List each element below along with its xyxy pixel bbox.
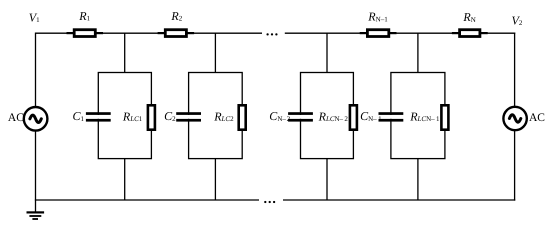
svg-text:C2: C2 [164, 109, 176, 123]
capacitor CN-1 [379, 112, 404, 121]
svg-text:AC: AC [8, 112, 24, 124]
svg-text:RLC1: RLC1 [122, 109, 143, 123]
wire right vertical from V2 node down to bottom rail [514, 33, 516, 201]
wire top rail right segment [285, 32, 515, 34]
capacitor CN-2 [288, 112, 313, 121]
svg-text:V2: V2 [512, 14, 523, 28]
resistor R2 [158, 30, 195, 37]
svg-text:C1: C1 [73, 109, 85, 123]
wire branch 2 top feed [214, 33, 216, 73]
ground [27, 211, 45, 220]
AC source left [24, 107, 48, 131]
node ellipsis top rail [266, 33, 277, 35]
wire branch 4 loop [391, 73, 445, 159]
wire top rail left segment [36, 32, 263, 34]
wire bottom rail left segment [35, 199, 259, 201]
wire branch 3 top feed [326, 33, 328, 73]
node ellipsis bottom rail [264, 201, 275, 203]
svg-text:RN: RN [462, 10, 475, 24]
resistor RLCN-1 [441, 105, 448, 129]
wire branch 1 bottom feed [124, 158, 126, 200]
AC source right [503, 107, 526, 130]
svg-text:V1: V1 [29, 10, 40, 24]
svg-text:CN–1: CN–1 [360, 109, 382, 123]
resistor RLCN-2 [350, 105, 357, 129]
wire branch 4 top feed [417, 33, 419, 73]
svg-text:CN–2: CN–2 [269, 109, 290, 123]
svg-text:R1: R1 [78, 9, 90, 23]
wire branch 4 bottom feed [417, 158, 419, 200]
wire branch 1 loop [98, 73, 151, 159]
svg-text:AC: AC [529, 112, 545, 124]
svg-text:RLC2: RLC2 [213, 109, 234, 123]
capacitor C1 [86, 112, 111, 121]
wire branch 2 loop [189, 73, 243, 159]
wire left vertical from V1 node down to ground [35, 33, 37, 213]
wire bottom rail right segment [283, 199, 515, 201]
resistor RN-1 [360, 30, 397, 37]
resistor RLC2 [239, 105, 246, 129]
wire branch 3 bottom feed [326, 158, 328, 200]
svg-text:RLCN–1: RLCN–1 [409, 109, 440, 123]
resistor R1 [67, 30, 104, 37]
wire branch 2 bottom feed [214, 158, 216, 200]
wire branch 1 top feed [124, 33, 126, 73]
wire branch 3 loop [301, 73, 354, 159]
resistor RLC1 [148, 105, 155, 129]
capacitor C2 [176, 112, 201, 121]
resistor RN [452, 30, 488, 37]
svg-text:R2: R2 [170, 9, 182, 23]
svg-text:RN–1: RN–1 [367, 10, 388, 24]
svg-text:RLCN–2: RLCN–2 [318, 109, 349, 123]
